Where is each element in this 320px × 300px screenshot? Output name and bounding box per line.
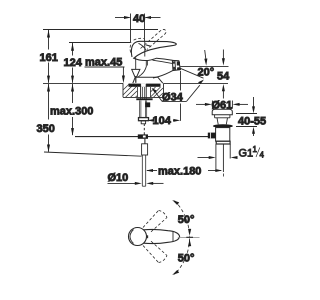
- dimension max.300: [50, 84, 93, 136]
- hatch right block: [151, 87, 164, 97]
- hose reference line (350 bottom): [44, 152, 142, 156]
- dimension 161: [40, 30, 159, 84]
- faucet handle (lever, side view): [131, 41, 176, 58]
- faucet base dark bar: [129, 84, 161, 87]
- faucet body and spout: [133, 42, 173, 83]
- svg-text:124: 124: [64, 57, 83, 69]
- top view: handle blade: [144, 229, 180, 243]
- hatch left block: [123, 84, 137, 98]
- waste centerline: [222, 144, 224, 172]
- top view: swing arc upper 50 deg: [172, 200, 194, 237]
- pull rod upper section (dashed centerline): [143, 124, 145, 135]
- waste rod knob: [208, 133, 216, 139]
- svg-text:max.300: max.300: [50, 106, 93, 118]
- pop-up pull rod knob (cone) above deck: [132, 58, 140, 83]
- deck reference line left: [43, 82, 123, 84]
- top view: axis line: [178, 237, 200, 239]
- pull rod stub below clevis: [144, 139, 146, 144]
- horizontal pop-up rod: [75, 136, 208, 138]
- top view: handle pivot circle: [129, 228, 147, 246]
- waste tailpiece: [216, 144, 230, 169]
- dimension 40-55: [236, 97, 266, 136]
- waste body bottom rim: [216, 141, 230, 144]
- dimension 104 (spout projection): [147, 71, 180, 127]
- svg-text:4: 4: [260, 151, 265, 160]
- waste body: [216, 128, 230, 142]
- dimension 350: [37, 84, 55, 152]
- aerator: [172, 60, 180, 70]
- base escutcheon: [133, 77, 163, 83]
- pull rod lower section: [142, 155, 145, 186]
- svg-text:50°: 50°: [178, 252, 195, 264]
- pop-up waste dome cap: [212, 109, 232, 115]
- waste flange ring: [213, 124, 233, 128]
- svg-text:20°: 20°: [198, 67, 215, 79]
- dimension 20 degrees: [179, 50, 229, 79]
- dimension diameter 34 (deck hole): [152, 80, 205, 104]
- deck reference line right extension: [164, 82, 229, 84]
- dimension diameter 10 (rod): [108, 172, 164, 185]
- handle raised position (dashed phantom): [130, 29, 166, 52]
- hose nipple on shank: [146, 102, 151, 107]
- thread label G1 1/4: [239, 145, 265, 160]
- pull rod sleeve: [142, 144, 148, 155]
- threaded shank below deck: [140, 100, 147, 117]
- thread G1 1/4 dimension arrows: [198, 156, 238, 159]
- svg-text:50°: 50°: [178, 214, 195, 226]
- shank foot: [139, 118, 149, 121]
- dimension 124: [64, 43, 131, 84]
- svg-text:54: 54: [217, 70, 230, 82]
- svg-text:Ø10: Ø10: [108, 172, 129, 184]
- washer under deck: [136, 98, 152, 100]
- dimension 40: [115, 13, 161, 43]
- svg-text:161: 161: [40, 52, 58, 64]
- svg-text:1: 1: [253, 145, 258, 154]
- svg-text:max.45: max.45: [85, 56, 122, 68]
- faucet cartridge dome cap and spout top: [133, 58, 172, 61]
- top view: rotated handle dashed upper: [143, 211, 167, 232]
- svg-text:104: 104: [153, 115, 172, 127]
- mounting deck cross-section with hatching: [123, 83, 164, 97]
- waste neck: [217, 118, 228, 125]
- svg-text:40: 40: [133, 13, 145, 25]
- top view: zero-position tick: [186, 236, 193, 238]
- svg-text:350: 350: [37, 123, 55, 135]
- top view: swing arc lower 50 deg: [172, 239, 194, 276]
- svg-text:G1: G1: [239, 148, 254, 160]
- dimension max.45 deck thickness: [85, 56, 125, 83]
- dimension 54: [217, 50, 230, 99]
- shank through deck hole: [140, 84, 142, 98]
- shank stub: [141, 121, 145, 124]
- svg-text:40-55: 40-55: [238, 115, 266, 127]
- dimension diameter 61 (waste flange): [196, 99, 248, 111]
- dimension max.180: [146, 165, 222, 177]
- clevis junction: [138, 134, 148, 138]
- waste band: [215, 115, 230, 118]
- top view: rotated handle dashed lower: [143, 241, 167, 262]
- svg-text:max.180: max.180: [158, 165, 201, 177]
